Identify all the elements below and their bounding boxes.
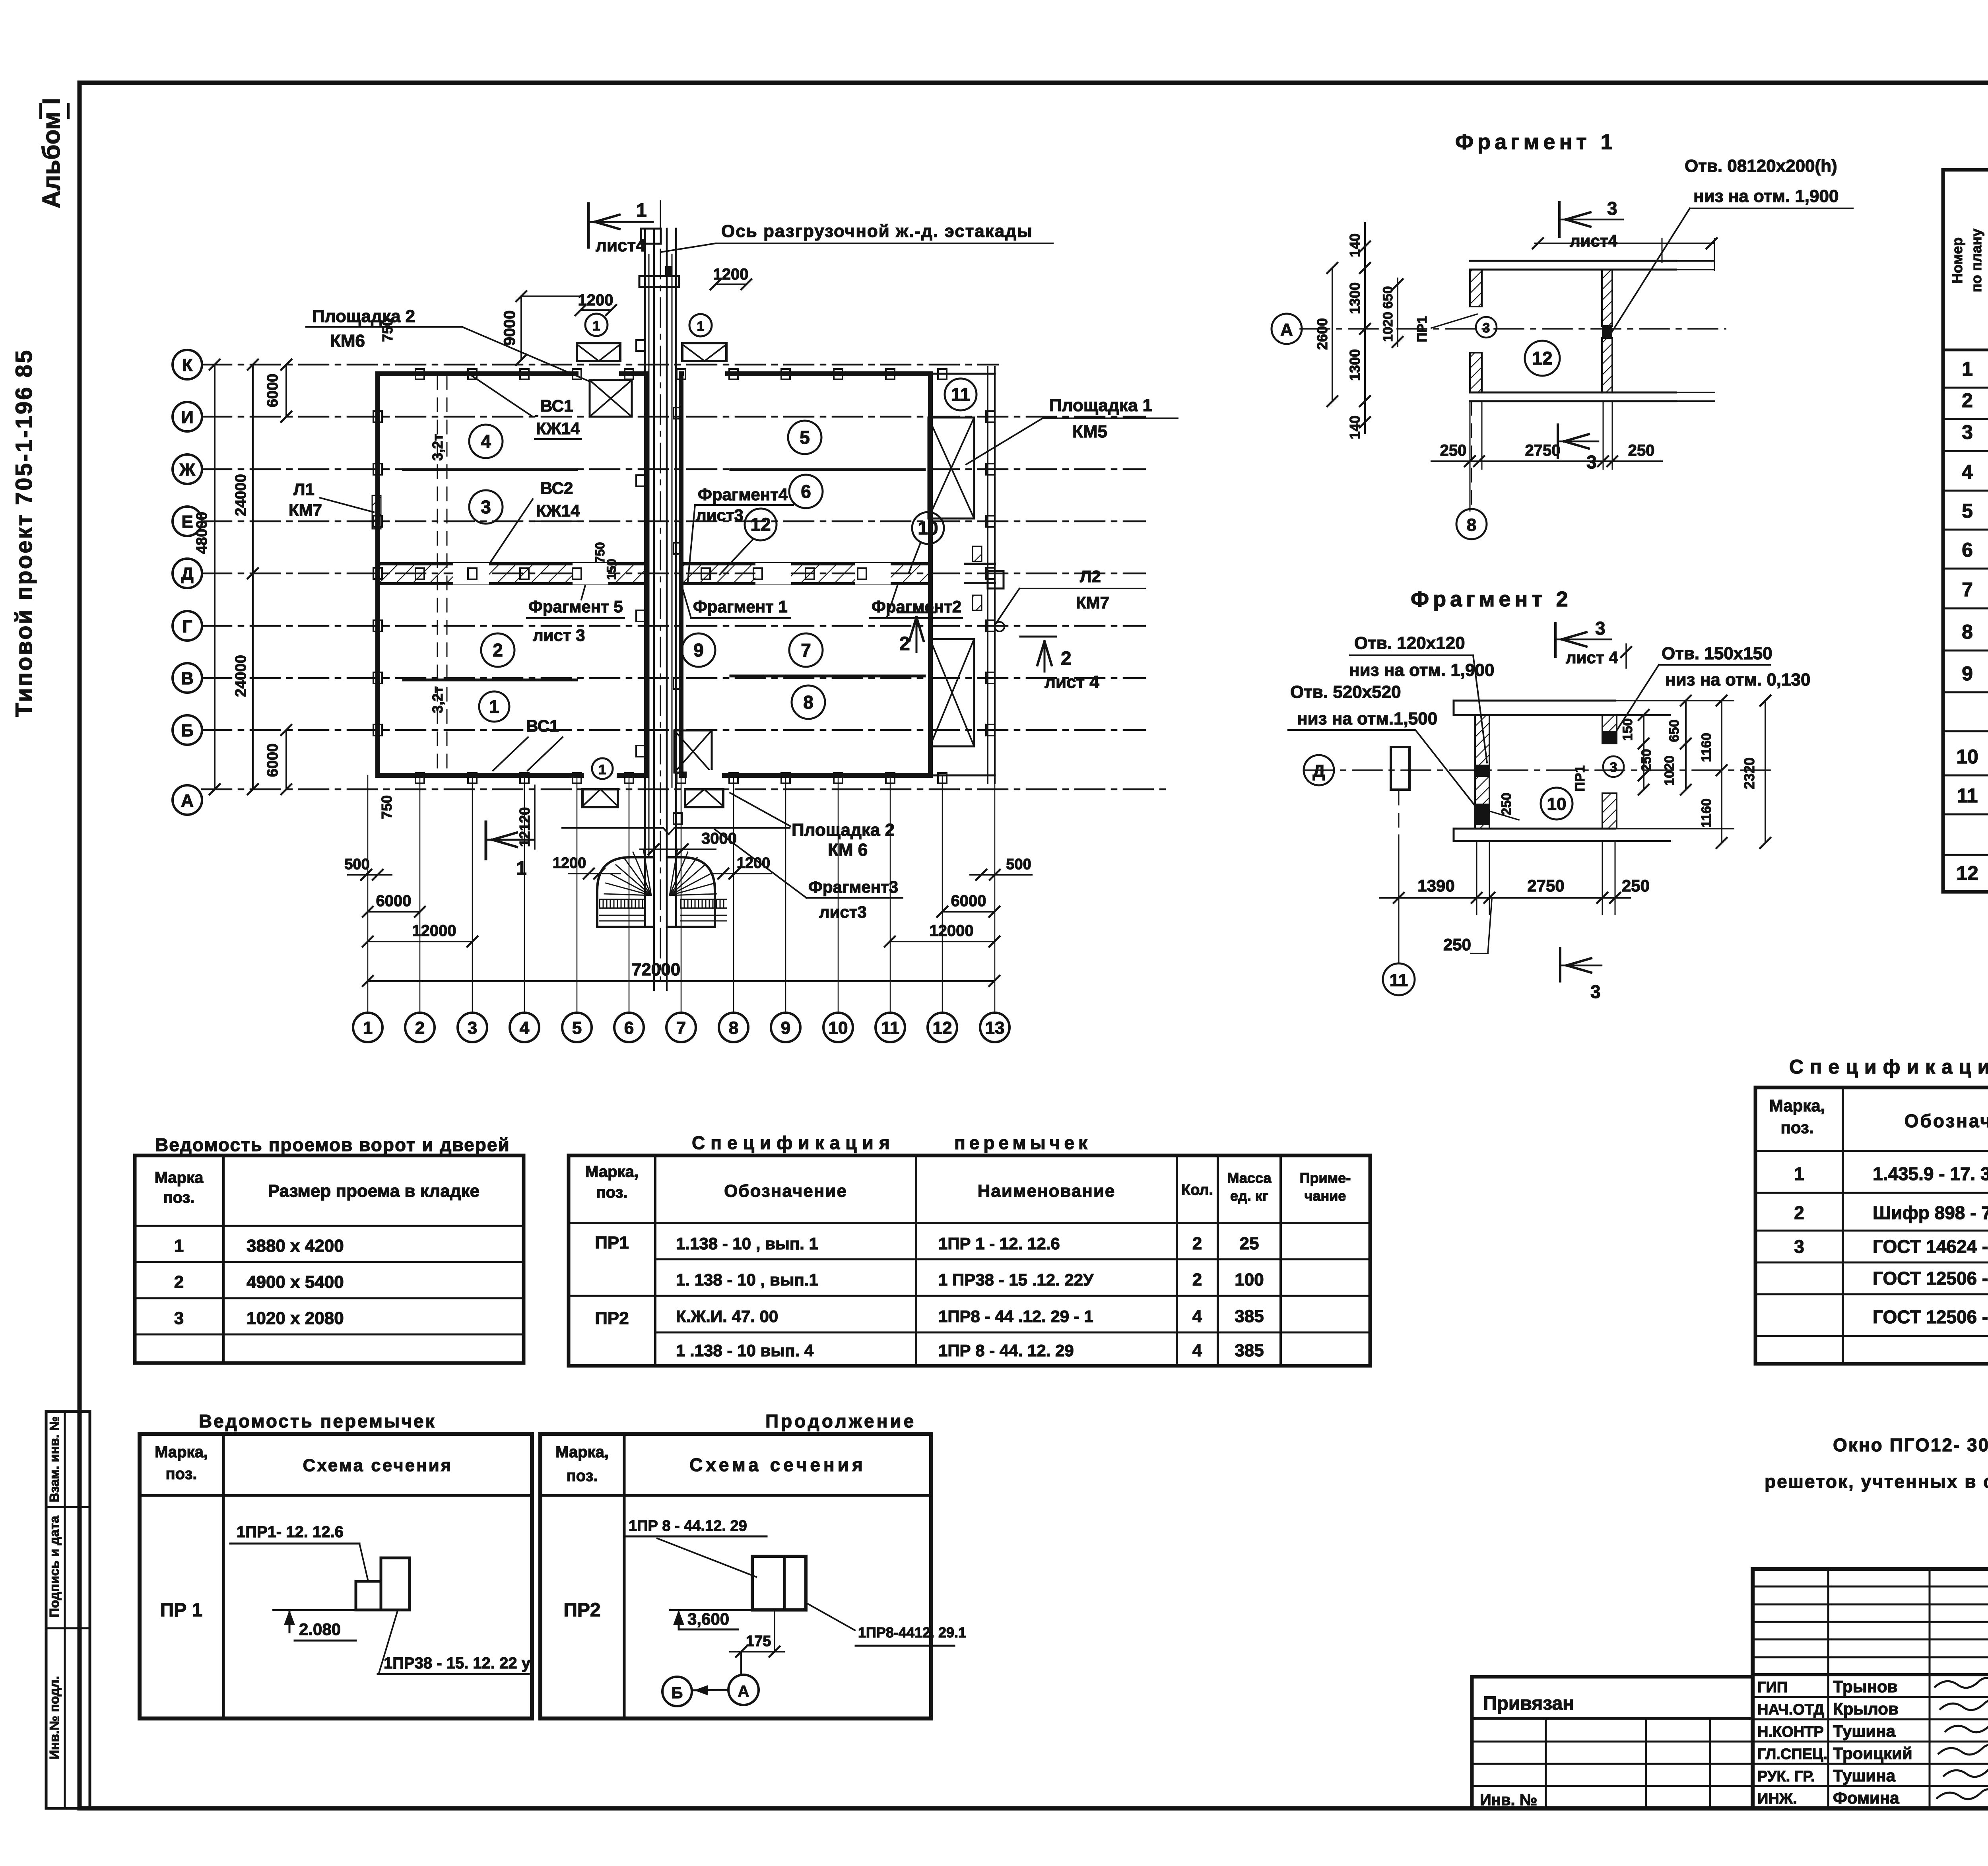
svg-text:1.138 - 10 , вып. 1: 1.138 - 10 , вып. 1 <box>676 1234 818 1253</box>
svg-text:поз.: поз. <box>163 1189 194 1206</box>
svg-text:Д: Д <box>181 564 193 584</box>
svg-text:4: 4 <box>1962 461 1973 483</box>
svg-text:Л2: Л2 <box>1080 567 1101 586</box>
svg-text:КЖ14: КЖ14 <box>536 501 580 520</box>
svg-text:КМ5: КМ5 <box>1072 422 1107 441</box>
svg-text:Фомина: Фомина <box>1833 1788 1899 1807</box>
svg-text:1. 138 - 10 , вып.1: 1. 138 - 10 , вып.1 <box>676 1270 818 1289</box>
svg-text:11: 11 <box>1957 784 1978 807</box>
svg-text:Инв. №: Инв. № <box>1480 1791 1537 1809</box>
svg-text:Тушина: Тушина <box>1833 1722 1896 1740</box>
svg-text:Взам. инв. №: Взам. инв. № <box>47 1416 62 1503</box>
svg-text:9: 9 <box>1962 662 1973 685</box>
svg-text:Б: Б <box>181 721 194 740</box>
svg-text:2: 2 <box>899 633 910 654</box>
svg-text:низ на отм.1,500: низ на отм.1,500 <box>1297 709 1437 728</box>
svg-text:24000: 24000 <box>233 474 249 516</box>
svg-text:Фрагмент 2: Фрагмент 2 <box>1411 587 1572 611</box>
svg-text:Спецификация: Спецификация <box>1789 1056 1988 1078</box>
svg-text:6: 6 <box>801 481 811 502</box>
svg-text:3,2т: 3,2т <box>429 686 446 713</box>
svg-text:Ведомость перемычек: Ведомость перемычек <box>199 1411 436 1431</box>
svg-text:Отв. 08120х200(h): Отв. 08120х200(h) <box>1685 156 1837 176</box>
svg-text:1160: 1160 <box>1699 798 1714 828</box>
svg-text:Фрагмент 1: Фрагмент 1 <box>1455 130 1617 154</box>
svg-text:Марка,: Марка, <box>555 1443 609 1461</box>
svg-text:3,600: 3,600 <box>687 1610 729 1628</box>
svg-text:250: 250 <box>1622 876 1650 895</box>
svg-text:лист 3: лист 3 <box>533 626 585 645</box>
svg-text:ПР1: ПР1 <box>1415 316 1430 342</box>
svg-text:Отв. 520х520: Отв. 520х520 <box>1290 682 1401 702</box>
svg-text:поз.: поз. <box>566 1467 598 1485</box>
svg-text:Д: Д <box>1312 761 1325 781</box>
svg-text:3,2т: 3,2т <box>429 434 446 461</box>
svg-text:2: 2 <box>1962 389 1973 412</box>
svg-text:8: 8 <box>803 692 813 713</box>
svg-text:Б: Б <box>672 1684 683 1702</box>
svg-text:Троицкий: Троицкий <box>1833 1744 1912 1763</box>
svg-text:В: В <box>181 669 194 688</box>
svg-text:12: 12 <box>933 1018 952 1038</box>
svg-text:1160: 1160 <box>1699 733 1714 762</box>
svg-text:Ж: Ж <box>179 460 195 480</box>
svg-text:175: 175 <box>746 1633 771 1650</box>
svg-text:КМ7: КМ7 <box>289 501 322 519</box>
svg-text:1390: 1390 <box>1417 876 1454 895</box>
svg-text:поз.: поз. <box>596 1184 627 1201</box>
svg-text:650: 650 <box>1667 720 1682 742</box>
svg-text:лист4: лист4 <box>596 236 646 255</box>
svg-text:6000: 6000 <box>264 744 281 777</box>
svg-text:6: 6 <box>624 1018 634 1038</box>
svg-text:2320: 2320 <box>1741 757 1757 789</box>
svg-text:1200: 1200 <box>578 291 613 309</box>
svg-text:Обозначение: Обозначение <box>724 1181 847 1201</box>
svg-text:6: 6 <box>1962 539 1973 561</box>
svg-text:11: 11 <box>951 384 971 405</box>
svg-text:100: 100 <box>1235 1270 1264 1289</box>
svg-text:И: И <box>181 408 194 427</box>
svg-text:ГОСТ 12506 - 81: ГОСТ 12506 - 81 <box>1873 1307 1988 1327</box>
svg-text:2: 2 <box>1061 648 1072 669</box>
svg-text:ПР2: ПР2 <box>595 1309 629 1328</box>
svg-text:10: 10 <box>1956 746 1978 768</box>
svg-text:1300: 1300 <box>1347 282 1363 314</box>
svg-text:КЖ14: КЖ14 <box>536 419 580 438</box>
svg-text:1200: 1200 <box>553 855 586 872</box>
svg-text:низ на отм. 1,900: низ на отм. 1,900 <box>1693 186 1839 206</box>
svg-text:РУК. ГР.: РУК. ГР. <box>1757 1768 1815 1785</box>
svg-text:3: 3 <box>1607 198 1617 219</box>
svg-text:48000: 48000 <box>194 512 210 554</box>
svg-text:500: 500 <box>1006 856 1031 873</box>
svg-text:низ на отм. 1,900: низ на отм. 1,900 <box>1349 660 1494 680</box>
svg-text:Г: Г <box>182 617 192 636</box>
svg-text:250: 250 <box>1443 935 1471 954</box>
svg-text:Трынов: Трынов <box>1833 1677 1897 1696</box>
svg-text:250: 250 <box>1499 793 1514 816</box>
svg-text:ВС2: ВС2 <box>540 479 573 497</box>
svg-text:8: 8 <box>1962 621 1973 643</box>
svg-text:13: 13 <box>985 1018 1005 1038</box>
svg-text:поз.: поз. <box>1780 1118 1813 1137</box>
svg-text:А: А <box>181 791 194 810</box>
svg-text:140: 140 <box>1347 416 1363 439</box>
svg-text:1ПР8 - 44 .12. 29 - 1: 1ПР8 - 44 .12. 29 - 1 <box>938 1307 1093 1326</box>
svg-text:385: 385 <box>1235 1307 1264 1326</box>
svg-text:Отв. 150х150: Отв. 150х150 <box>1662 644 1773 663</box>
svg-text:А: А <box>738 1683 749 1700</box>
svg-text:2: 2 <box>1192 1270 1202 1289</box>
svg-text:3: 3 <box>1595 618 1606 639</box>
svg-text:1: 1 <box>489 696 499 717</box>
svg-text:3: 3 <box>468 1018 477 1038</box>
svg-text:9: 9 <box>693 640 704 660</box>
svg-text:ПР 1: ПР 1 <box>160 1600 203 1621</box>
svg-text:2750: 2750 <box>1525 442 1561 459</box>
svg-text:НАЧ.ОТД: НАЧ.ОТД <box>1757 1701 1824 1718</box>
svg-text:ПР2: ПР2 <box>563 1600 600 1621</box>
svg-text:Площадка 2: Площадка 2 <box>312 307 415 326</box>
svg-text:Продолжение: Продолжение <box>765 1411 916 1431</box>
svg-text:Альбом I: Альбом I <box>38 98 65 208</box>
svg-text:250: 250 <box>1440 442 1467 459</box>
svg-text:Масса: Масса <box>1227 1170 1272 1186</box>
svg-text:1: 1 <box>516 858 527 879</box>
svg-text:ГЛ.СПЕЦ.: ГЛ.СПЕЦ. <box>1757 1746 1827 1763</box>
svg-text:Шифр 898 - 73: Шифр 898 - 73 <box>1873 1202 1988 1223</box>
svg-text:4900 х 5400: 4900 х 5400 <box>247 1272 344 1292</box>
svg-text:3: 3 <box>1962 421 1973 443</box>
svg-text:1300: 1300 <box>1347 349 1363 381</box>
svg-text:4: 4 <box>1192 1307 1202 1326</box>
svg-text:72000: 72000 <box>632 960 680 979</box>
svg-text:по плану: по плану <box>1968 229 1984 292</box>
svg-text:Схема сечения: Схема сечения <box>689 1454 866 1475</box>
svg-text:1: 1 <box>599 762 606 777</box>
svg-text:2.080: 2.080 <box>299 1620 341 1639</box>
svg-text:ГИП: ГИП <box>1757 1679 1788 1696</box>
svg-text:лист 4: лист 4 <box>1044 672 1099 692</box>
svg-text:12120: 12120 <box>516 807 533 847</box>
svg-text:Приме-: Приме- <box>1300 1170 1351 1186</box>
svg-text:Крылов: Крылов <box>1833 1699 1899 1718</box>
svg-text:Привязан: Привязан <box>1483 1693 1574 1714</box>
svg-text:перемычек: перемычек <box>954 1132 1091 1153</box>
svg-text:А: А <box>1280 320 1293 340</box>
svg-text:Спецификация: Спецификация <box>692 1132 895 1153</box>
svg-text:1ПР 1 - 12. 12.6: 1ПР 1 - 12. 12.6 <box>938 1234 1060 1253</box>
svg-text:Фрагмент2: Фрагмент2 <box>872 597 961 616</box>
svg-text:Наименование: Наименование <box>978 1181 1116 1201</box>
svg-text:750: 750 <box>379 795 395 819</box>
svg-text:12: 12 <box>1956 862 1978 884</box>
svg-text:3: 3 <box>1483 320 1490 336</box>
svg-text:К: К <box>182 355 193 375</box>
svg-text:Обозначение: Обозначение <box>1905 1111 1988 1131</box>
svg-text:2: 2 <box>1794 1202 1804 1223</box>
svg-text:9000: 9000 <box>501 311 518 346</box>
svg-text:1 ПР38 - 15 .12. 22У: 1 ПР38 - 15 .12. 22У <box>938 1270 1094 1289</box>
svg-text:Площадка 2: Площадка 2 <box>792 820 895 840</box>
svg-text:ед. кг: ед. кг <box>1230 1188 1268 1204</box>
svg-text:Схема сечения: Схема сечения <box>303 1456 453 1475</box>
svg-text:5: 5 <box>1962 500 1973 522</box>
svg-text:5: 5 <box>572 1018 582 1038</box>
svg-text:11: 11 <box>1390 971 1408 990</box>
svg-text:КМ7: КМ7 <box>1076 593 1109 612</box>
svg-text:150: 150 <box>1620 718 1635 741</box>
svg-text:2: 2 <box>1192 1234 1202 1253</box>
svg-text:250: 250 <box>1628 442 1655 459</box>
svg-text:1 .138 - 10 вып. 4: 1 .138 - 10 вып. 4 <box>676 1341 814 1360</box>
svg-text:ГОСТ 14624 - 69: ГОСТ 14624 - 69 <box>1873 1236 1988 1257</box>
svg-text:Отв. 120х120: Отв. 120х120 <box>1354 633 1465 653</box>
svg-text:2600: 2600 <box>1314 318 1330 350</box>
svg-text:8: 8 <box>1467 515 1476 535</box>
svg-text:500: 500 <box>344 856 369 873</box>
svg-text:Марка,: Марка, <box>585 1163 639 1181</box>
svg-text:650: 650 <box>1380 286 1396 309</box>
svg-text:1ПР1- 12. 12.6: 1ПР1- 12. 12.6 <box>237 1523 344 1541</box>
svg-text:Инв.№ подл.: Инв.№ подл. <box>47 1676 62 1759</box>
svg-text:7: 7 <box>1962 579 1973 601</box>
svg-text:Тушина: Тушина <box>1833 1766 1896 1785</box>
svg-text:1020: 1020 <box>1380 312 1396 342</box>
svg-text:Номер: Номер <box>1949 237 1965 283</box>
svg-text:Е: Е <box>181 512 193 532</box>
svg-text:1020 х 2080: 1020 х 2080 <box>247 1309 344 1328</box>
svg-text:КМ6: КМ6 <box>330 331 365 351</box>
svg-text:5: 5 <box>800 427 810 448</box>
svg-text:ВС1: ВС1 <box>540 396 573 415</box>
svg-text:Марка: Марка <box>155 1169 204 1186</box>
svg-text:КМ 6: КМ 6 <box>828 840 868 860</box>
svg-text:3: 3 <box>1586 452 1597 472</box>
svg-text:4: 4 <box>1192 1341 1202 1360</box>
svg-text:9: 9 <box>781 1018 790 1038</box>
svg-text:1: 1 <box>697 319 705 334</box>
svg-text:3: 3 <box>1794 1236 1804 1257</box>
svg-text:1.435.9 - 17. 3-3000: 1.435.9 - 17. 3-3000 <box>1873 1163 1988 1184</box>
svg-text:лист 4: лист 4 <box>1566 648 1618 667</box>
svg-text:1: 1 <box>593 318 600 334</box>
svg-text:К.Ж.И. 47. 00: К.Ж.И. 47. 00 <box>676 1307 778 1326</box>
svg-text:1ПР 8 - 44. 12. 29: 1ПР 8 - 44. 12. 29 <box>938 1341 1074 1360</box>
svg-text:12000: 12000 <box>929 922 973 940</box>
svg-text:Окно ПГО12- 30.1- ж отличает: Окно ПГО12- 30.1- ж отличается от ПГО 12… <box>1833 1435 1988 1455</box>
svg-text:4: 4 <box>481 431 491 452</box>
svg-text:Фрагмент3: Фрагмент3 <box>808 878 898 896</box>
svg-text:Ведомость проемов ворот и д: Ведомость проемов ворот и дверей <box>155 1134 510 1155</box>
svg-text:2750: 2750 <box>1527 876 1564 895</box>
svg-text:поз.: поз. <box>165 1465 197 1483</box>
svg-text:решеток, учтенных в специфик: решеток, учтенных в спецификации комплек… <box>1765 1471 1988 1492</box>
svg-text:4: 4 <box>520 1018 530 1038</box>
svg-text:1200: 1200 <box>713 266 749 283</box>
svg-text:1ПР8-4412. 29.1: 1ПР8-4412. 29.1 <box>858 1624 966 1641</box>
svg-text:6000: 6000 <box>376 892 412 910</box>
svg-text:лист4: лист4 <box>1570 231 1617 250</box>
svg-text:2: 2 <box>493 640 503 660</box>
svg-text:12: 12 <box>750 514 771 535</box>
svg-text:ПР1: ПР1 <box>1573 765 1588 792</box>
svg-text:Марка,: Марка, <box>155 1443 208 1461</box>
svg-text:12000: 12000 <box>412 922 456 940</box>
svg-text:1: 1 <box>1794 1163 1804 1184</box>
svg-text:140: 140 <box>1347 233 1363 257</box>
svg-text:6000: 6000 <box>951 892 986 910</box>
svg-text:1ПР38 - 15. 12. 22 у: 1ПР38 - 15. 12. 22 у <box>384 1654 531 1672</box>
svg-text:12: 12 <box>1532 348 1552 369</box>
svg-text:2: 2 <box>174 1272 184 1292</box>
svg-text:3: 3 <box>481 497 491 517</box>
svg-text:Фрагмент 5: Фрагмент 5 <box>528 597 623 616</box>
svg-text:10: 10 <box>829 1018 848 1038</box>
svg-text:ВС1: ВС1 <box>526 716 559 735</box>
svg-text:11: 11 <box>881 1018 900 1038</box>
svg-text:24000: 24000 <box>233 655 249 697</box>
svg-text:ГОСТ 12506 - 81: ГОСТ 12506 - 81 <box>1873 1268 1988 1289</box>
svg-text:ИНЖ.: ИНЖ. <box>1757 1790 1797 1807</box>
svg-text:Подпись и дата: Подпись и дата <box>47 1516 62 1617</box>
svg-text:3: 3 <box>1590 981 1601 1002</box>
svg-text:лист3: лист3 <box>819 903 867 921</box>
svg-text:250: 250 <box>1639 749 1654 772</box>
svg-text:7: 7 <box>676 1018 686 1038</box>
svg-text:низ на отм. 0,130: низ на отм. 0,130 <box>1665 670 1810 689</box>
svg-text:6000: 6000 <box>264 374 281 408</box>
svg-text:лист3: лист3 <box>696 506 744 524</box>
svg-text:750: 750 <box>593 542 607 563</box>
svg-text:Н.КОНТР: Н.КОНТР <box>1757 1724 1824 1740</box>
svg-text:385: 385 <box>1235 1341 1264 1360</box>
svg-text:3: 3 <box>1610 760 1617 775</box>
svg-text:Кол.: Кол. <box>1181 1182 1213 1198</box>
svg-text:Площадка 1: Площадка 1 <box>1049 396 1152 415</box>
svg-text:1ПР 8 - 44.12. 29: 1ПР 8 - 44.12. 29 <box>629 1518 747 1534</box>
svg-text:10: 10 <box>1547 794 1567 814</box>
svg-text:1: 1 <box>363 1018 373 1038</box>
svg-text:1020: 1020 <box>1662 755 1677 786</box>
svg-text:1: 1 <box>636 200 647 221</box>
svg-text:2: 2 <box>415 1018 425 1038</box>
svg-text:3880 х 4200: 3880 х 4200 <box>247 1236 344 1256</box>
svg-text:10: 10 <box>918 518 938 538</box>
svg-text:Фрагмент 1: Фрагмент 1 <box>693 597 788 616</box>
svg-text:Типовой проект 705-1-196 85: Типовой проект 705-1-196 85 <box>11 349 37 717</box>
svg-text:Размер проема в кладке: Размер проема в кладке <box>268 1181 480 1201</box>
svg-text:Марка,: Марка, <box>1769 1096 1825 1115</box>
svg-text:8: 8 <box>729 1018 738 1038</box>
svg-text:Фрагмент4: Фрагмент4 <box>698 485 788 504</box>
svg-text:25: 25 <box>1240 1234 1259 1253</box>
svg-text:1: 1 <box>1962 358 1973 380</box>
svg-text:3: 3 <box>174 1309 184 1328</box>
svg-text:7: 7 <box>801 640 811 660</box>
svg-text:ПР1: ПР1 <box>595 1233 629 1252</box>
svg-text:чание: чание <box>1305 1188 1346 1204</box>
svg-text:Ось разгрузочной ж.-д. эста: Ось разгрузочной ж.-д. эстакады <box>721 221 1033 241</box>
svg-text:1: 1 <box>174 1236 184 1256</box>
svg-text:Л1: Л1 <box>293 480 315 499</box>
